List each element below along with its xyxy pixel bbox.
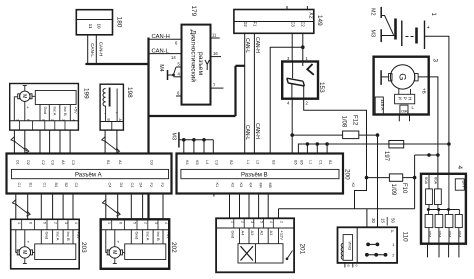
svg-text:CAN-L: CAN-L	[244, 125, 250, 140]
svg-text:30A: 30A	[427, 231, 432, 238]
svg-text:M: M	[111, 250, 117, 254]
actuator 202	[101, 219, 177, 268]
svg-text:2: 2	[144, 222, 148, 224]
svg-text:60A: 60A	[433, 177, 438, 184]
svg-text:Разъём А: Разъём А	[75, 173, 102, 179]
svg-text:CAN-H: CAN-H	[152, 34, 170, 40]
svg-text:+: +	[117, 240, 120, 245]
svg-text:149: 149	[316, 15, 323, 26]
svg-text:6: 6	[26, 119, 30, 121]
svg-text:M4: M4	[158, 64, 164, 71]
svg-text:11: 11	[88, 24, 93, 29]
svg-text:B1: B1	[29, 183, 33, 188]
svg-text:L1: L1	[309, 160, 313, 164]
svg-text:Н: Н	[408, 97, 413, 100]
svg-text:202: 202	[170, 242, 177, 253]
svg-text:K2: K2	[230, 183, 234, 188]
svg-text:B2: B2	[271, 160, 275, 165]
svg-text:4: 4	[74, 222, 78, 224]
battery 1	[396, 13, 437, 50]
svg-text:M3: M3	[370, 30, 376, 38]
actuator 198	[100, 84, 133, 130]
svg-text:C3: C3	[291, 21, 296, 27]
svg-text:БП: БП	[462, 181, 467, 187]
shield bus under 180	[85, 63, 148, 65]
svg-text:C1: C1	[318, 160, 322, 165]
svg-text:6: 6	[119, 222, 123, 224]
wire battery + feed	[425, 36, 449, 174]
wire relay pin 2 to ignition feed	[304, 99, 367, 209]
svg-text:C3: C3	[214, 160, 218, 165]
svg-text:P: P	[391, 229, 394, 234]
svg-text:B2: B2	[64, 183, 68, 188]
svg-text:F1: F1	[253, 22, 258, 28]
battery ground M2	[370, 7, 394, 35]
svg-text:C1: C1	[17, 183, 21, 188]
svg-text:M5: M5	[268, 183, 272, 188]
svg-text:5: 5	[42, 222, 46, 224]
connector B of ECU 200	[177, 154, 351, 194]
svg-text:+12V: +12V	[280, 231, 285, 241]
ground M4 with 179 pins 5,4	[158, 62, 182, 81]
fuse F12	[292, 115, 379, 139]
svg-text:Р: Р	[403, 97, 408, 100]
svg-text:+: +	[27, 105, 30, 110]
wire generator +B feed	[418, 77, 438, 174]
svg-text:Inc A: Inc A	[146, 232, 151, 241]
svg-text:11: 11	[212, 33, 217, 38]
svg-text:D1: D1	[16, 160, 20, 165]
svg-text:4: 4	[71, 119, 75, 121]
svg-text:F2: F2	[160, 183, 164, 187]
svg-text:198: 198	[126, 87, 133, 98]
component 149 instrument cluster X2	[234, 6, 323, 33]
svg-text:C2: C2	[301, 21, 306, 27]
svg-text:2: 2	[54, 222, 58, 224]
svg-text:4: 4	[456, 166, 463, 170]
svg-text:60A: 60A	[424, 177, 429, 184]
svg-text:B5: B5	[293, 160, 297, 165]
wire CAN-L from 149 D2 to connector B	[244, 33, 246, 153]
svg-text:179: 179	[190, 6, 197, 17]
svg-text:о: о	[355, 265, 359, 267]
shield box around 179 harness	[149, 38, 245, 117]
wires connector A to 202	[102, 194, 163, 220]
svg-text:CAN-H: CAN-H	[99, 42, 104, 57]
svg-text:Inc B: Inc B	[63, 107, 68, 116]
wire from node to connector B pin	[270, 47, 303, 153]
svg-text:5: 5	[41, 119, 45, 121]
svg-text:C4: C4	[130, 183, 134, 188]
power bus to connector B pins	[298, 142, 450, 153]
svg-text:Inc B: Inc B	[66, 232, 71, 241]
179 right pin 11	[211, 37, 220, 39]
svg-text:1: 1	[231, 221, 235, 223]
svg-text:2: 2	[241, 221, 245, 223]
svg-text:Gnd: Gnd	[134, 232, 139, 240]
node on C2 wire	[301, 45, 305, 49]
svg-text:153: 153	[318, 82, 325, 93]
svg-text:Gnd: Gnd	[44, 232, 49, 240]
svg-text:4: 4	[269, 221, 273, 223]
svg-text:197: 197	[383, 151, 389, 162]
wire CAN-L 179 pin 14	[149, 53, 182, 55]
wire CAN-H 179 pin 6	[149, 38, 182, 40]
fusebox 4	[421, 166, 467, 244]
wires connector B to 201	[214, 194, 279, 219]
svg-text:+5V: +5V	[166, 232, 171, 240]
svg-text:CAN-L: CAN-L	[152, 48, 170, 54]
svg-text:K5: K5	[195, 160, 199, 165]
svg-text:F2: F2	[149, 183, 153, 187]
svg-text:115 A: 115 A	[380, 99, 385, 111]
svg-text:M3: M3	[171, 133, 177, 141]
wire CAN-H from 149 F1 to connector B	[253, 33, 255, 153]
svg-text:B1: B1	[106, 160, 110, 165]
actuator 199	[10, 84, 90, 131]
svg-text:D4: D4	[139, 183, 143, 188]
svg-text:K4: K4	[249, 183, 253, 188]
svg-text:C3: C3	[71, 160, 75, 165]
svg-text:1/08: 1/08	[341, 116, 347, 128]
connector B pin labels bottom	[215, 183, 355, 188]
svg-text:K4: K4	[185, 160, 189, 165]
svg-text:ИМЗ: ИМЗ	[348, 242, 353, 251]
svg-text:6: 6	[29, 222, 33, 224]
svg-text:3: 3	[61, 119, 65, 121]
svg-text:203: 203	[80, 242, 87, 253]
wires connector A to 203	[12, 194, 73, 220]
svg-text:CAN-H: CAN-H	[254, 123, 260, 139]
fuse F10	[367, 174, 417, 196]
svg-text:2: 2	[280, 221, 284, 223]
179 pin 6b stub	[176, 95, 182, 97]
svg-text:1: 1	[17, 222, 21, 224]
shield drop wire between connectors	[147, 116, 149, 154]
svg-text:M4: M4	[258, 183, 262, 188]
wires 198 to connector A	[102, 130, 120, 153]
svg-text:2: 2	[50, 119, 54, 121]
svg-text:200: 200	[344, 169, 351, 180]
svg-text:40A: 40A	[457, 231, 462, 238]
svg-text:+B: +B	[422, 88, 427, 94]
svg-text:Разъём В: Разъём В	[241, 173, 268, 179]
svg-text:CAN-H: CAN-H	[254, 37, 260, 53]
relay 153	[282, 56, 325, 106]
179 right pin 16	[211, 56, 222, 58]
svg-text:L2: L2	[256, 160, 260, 164]
connector B pin labels top	[185, 160, 332, 165]
svg-text:5: 5	[132, 222, 136, 224]
svg-text:A4: A4	[61, 160, 65, 165]
svg-text:C2: C2	[41, 160, 45, 165]
svg-text:M: M	[21, 94, 27, 98]
ignition switch 110	[338, 217, 409, 268]
svg-text:16: 16	[213, 51, 218, 56]
svg-text:Inc A: Inc A	[52, 107, 57, 116]
svg-text:CAN-L: CAN-L	[244, 38, 250, 53]
connector A pin labels bottom	[17, 160, 164, 187]
svg-text:A2: A2	[260, 231, 265, 237]
battery ground M3	[370, 29, 396, 42]
svg-text:5: 5	[260, 221, 264, 223]
svg-text:CAN-L: CAN-L	[90, 43, 95, 57]
svg-text:3: 3	[432, 59, 439, 63]
svg-text:199: 199	[83, 88, 90, 99]
svg-text:D2: D2	[26, 160, 30, 165]
svg-text:разъем: разъем	[197, 52, 204, 75]
component 179 diagnostic connector	[182, 6, 211, 105]
M3 ground bus at connector B	[171, 132, 214, 153]
svg-text:3: 3	[64, 222, 68, 224]
svg-text:A1: A1	[269, 231, 274, 237]
svg-text:K3: K3	[239, 183, 243, 188]
svg-text:C3: C3	[51, 160, 55, 165]
svg-text:D4: D4	[119, 183, 123, 188]
fuse 197	[383, 141, 404, 162]
svg-text:B4: B4	[54, 183, 58, 188]
wire F10 to fusebox feed	[415, 154, 429, 156]
svg-text:110: 110	[402, 232, 409, 243]
svg-text:X2: X2	[308, 12, 314, 19]
wire CAN-L from 180 pin 11	[87, 35, 89, 64]
connector A of ECU 200	[7, 154, 172, 194]
svg-text:10: 10	[97, 23, 102, 29]
component 180 CAN node	[76, 10, 122, 35]
wire CAN-H from 180 pin 10	[95, 35, 97, 64]
+12V rail	[279, 208, 415, 210]
svg-text:C2: C2	[74, 183, 78, 188]
svg-text:30A: 30A	[437, 231, 442, 238]
svg-text:И: И	[398, 97, 403, 100]
wires 199 to connector A	[11, 130, 70, 153]
svg-text:+: +	[427, 25, 430, 31]
svg-text:K2: K2	[351, 183, 355, 188]
svg-text:L4: L4	[205, 160, 209, 164]
control head 201	[216, 218, 305, 272]
svg-text:3: 3	[154, 222, 158, 224]
svg-text:M: M	[21, 250, 27, 254]
svg-text:B2: B2	[229, 160, 233, 165]
svg-text:F12: F12	[352, 115, 358, 126]
svg-text:50: 50	[391, 218, 396, 223]
svg-text:D2: D2	[243, 21, 248, 27]
svg-text:Inc A: Inc A	[56, 232, 61, 241]
generator 3	[374, 57, 439, 115]
svg-text:Gnd: Gnd	[231, 231, 236, 239]
svg-text:Inc B: Inc B	[156, 232, 161, 241]
svg-text:201: 201	[299, 244, 306, 255]
svg-text:C4: C4	[108, 183, 112, 188]
wire F10 node down to +12V rail	[414, 178, 416, 209]
svg-text:1: 1	[107, 222, 111, 224]
svg-text:C1: C1	[43, 183, 47, 188]
wire relay pin 4 to F12 node and connector B	[291, 99, 293, 154]
svg-text:30: 30	[371, 218, 376, 223]
svg-text:Gnd: Gnd	[43, 107, 48, 115]
svg-text:1/09: 1/09	[390, 184, 396, 196]
179 right pin 7	[211, 87, 224, 89]
svg-text:B5: B5	[300, 160, 304, 165]
svg-text:L1: L1	[246, 160, 250, 164]
svg-text:3: 3	[250, 221, 254, 223]
wire 149 C2 to relay 153 pin 1	[302, 33, 304, 61]
svg-text:+: +	[27, 240, 30, 245]
generator output stubs	[398, 115, 400, 122]
svg-text:G: G	[397, 73, 408, 80]
svg-text:A4: A4	[241, 231, 246, 237]
svg-text:15: 15	[381, 218, 386, 223]
connector A pin labels top	[16, 160, 122, 165]
svg-text:A1: A1	[118, 160, 122, 165]
fusebox output wires	[428, 244, 459, 258]
svg-text:M2: M2	[370, 8, 376, 16]
wire 149 C3 to relay 153 pin 3	[291, 33, 293, 61]
svg-text:+5V: +5V	[73, 107, 78, 115]
wire F12 node to ignition pin 15	[377, 135, 379, 227]
svg-text:Диагностический: Диагностический	[190, 30, 198, 82]
svg-text:4: 4	[164, 222, 168, 224]
svg-text:K1: K1	[215, 183, 219, 188]
svg-text:180: 180	[116, 17, 123, 28]
svg-text:1: 1	[15, 119, 19, 121]
svg-text:+5V: +5V	[76, 232, 81, 240]
svg-text:B1: B1	[328, 160, 332, 165]
svg-text:F10: F10	[401, 183, 407, 194]
actuator 203	[11, 219, 87, 268]
svg-text:б: б	[346, 265, 350, 267]
svg-text:A3: A3	[250, 231, 255, 237]
svg-text:D3: D3	[150, 160, 154, 165]
svg-text:30A: 30A	[447, 231, 452, 238]
svg-text:ОЖ: ОЖ	[401, 108, 408, 113]
svg-text:14: 14	[171, 55, 176, 60]
